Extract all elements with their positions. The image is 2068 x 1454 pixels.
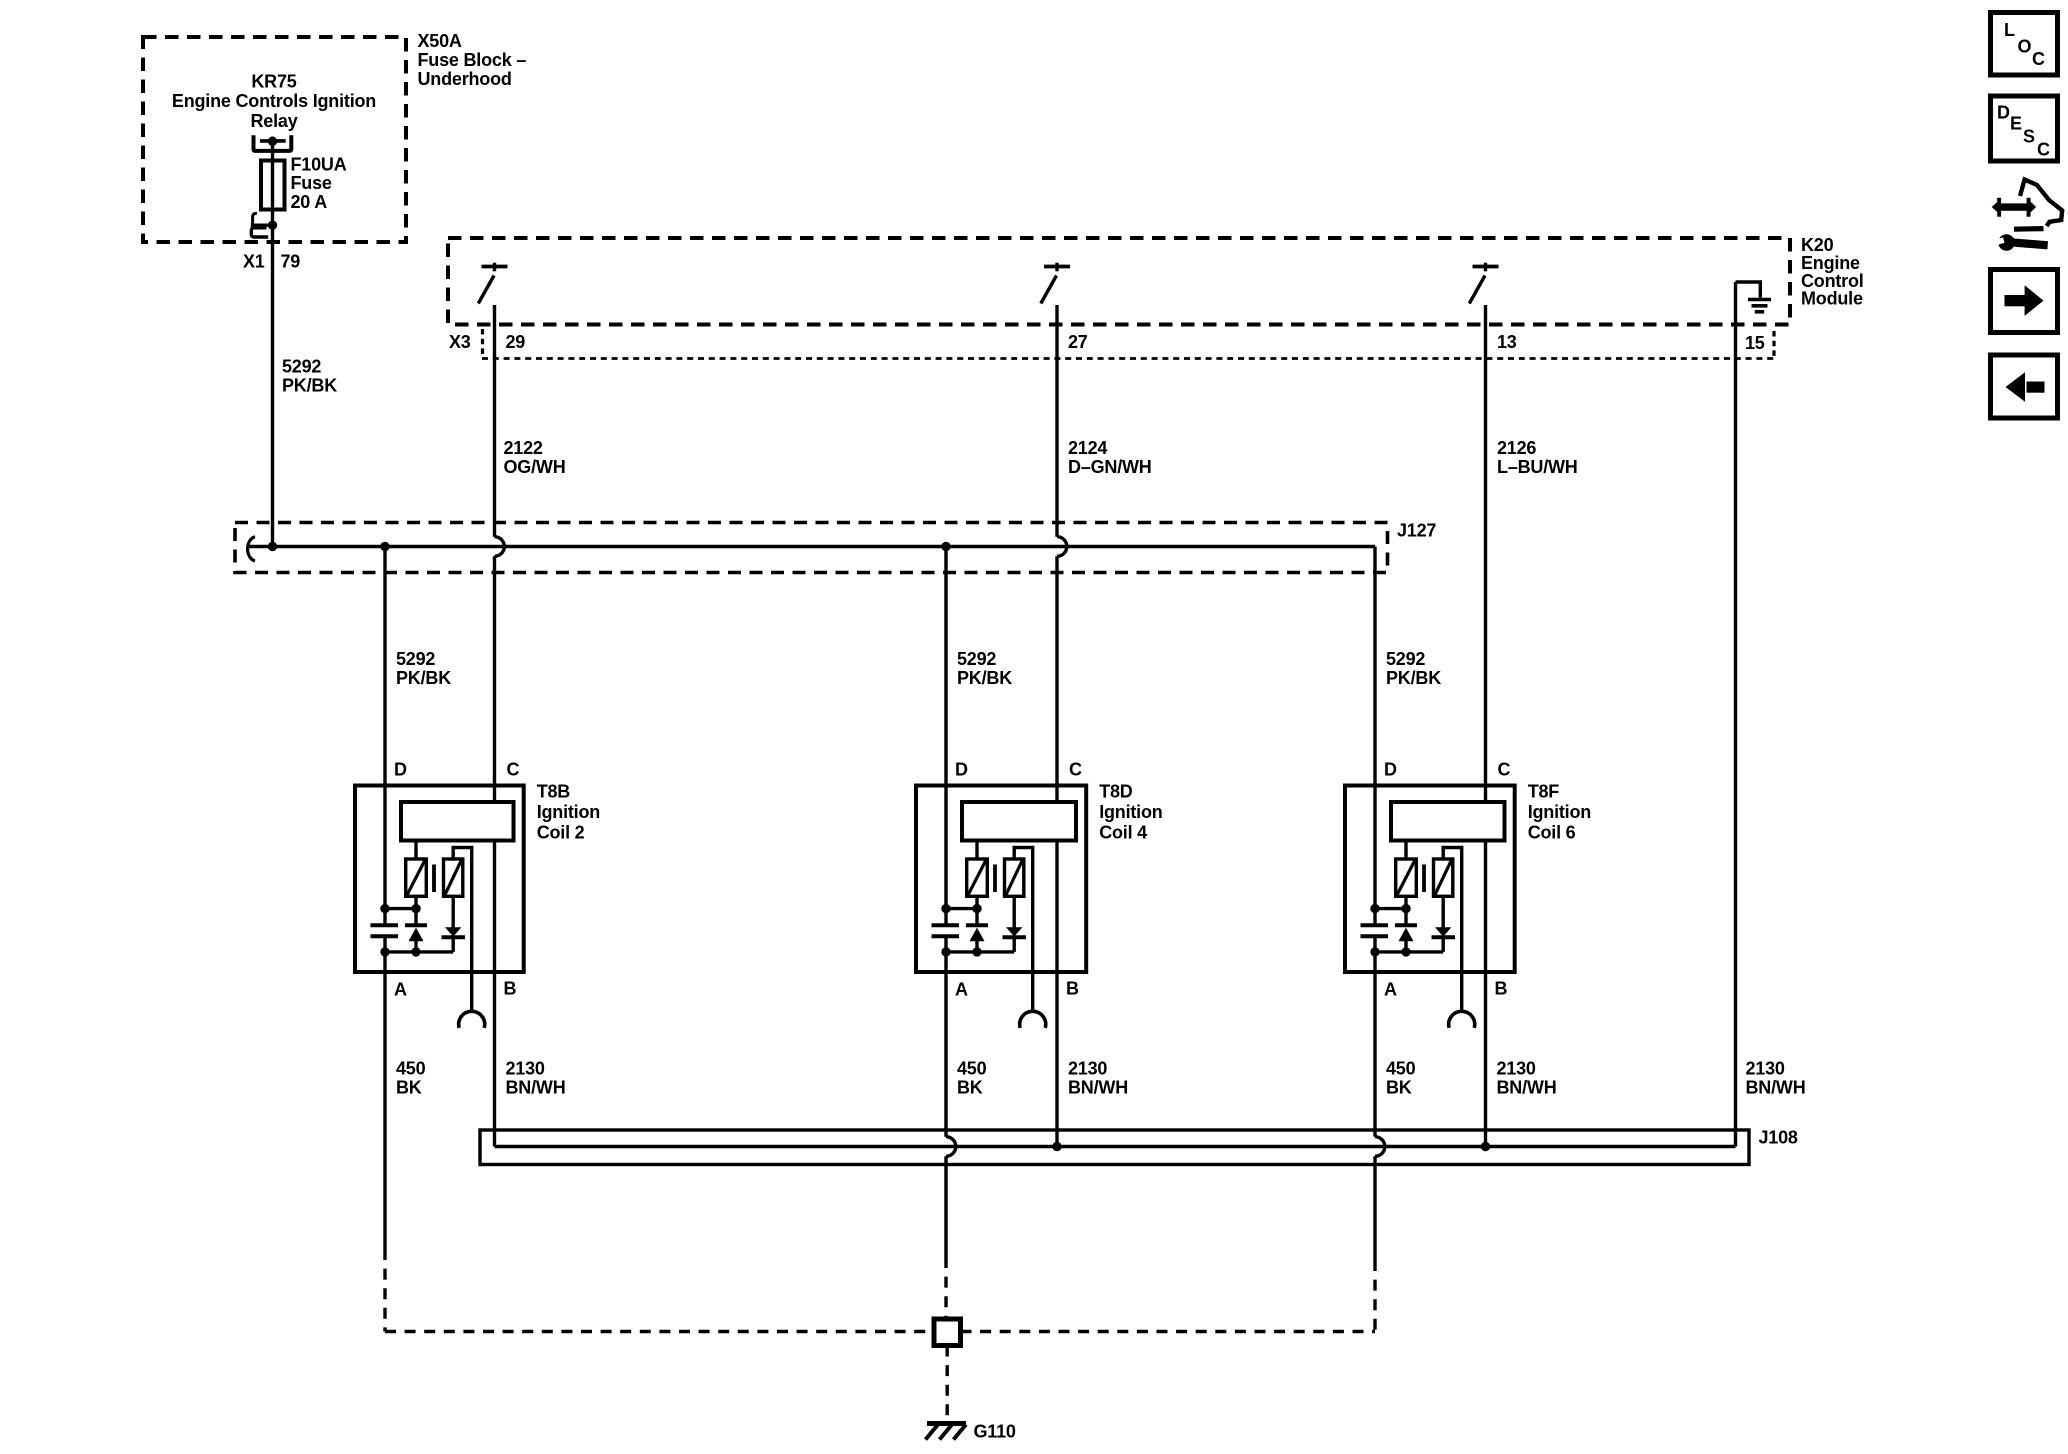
ECM driver output pin 13 — [1484, 263, 1487, 272]
junction J108 coil4 B — [1052, 1142, 1061, 1151]
coil 4 connector bar — [962, 802, 1076, 841]
svg-text:2130: 2130 — [1068, 1059, 1107, 1079]
svg-text:15: 15 — [1745, 333, 1765, 353]
svg-text:T8D: T8D — [1099, 782, 1133, 802]
svg-text:B: B — [504, 979, 517, 999]
wire 450 BK coil2 A — [383, 936, 386, 1249]
svg-text:D: D — [394, 760, 407, 780]
coil 4 igniter 2 — [1005, 859, 1024, 896]
svg-text:Coil 4: Coil 4 — [1099, 823, 1147, 843]
wire 5292 PK/BK to coil4 D — [944, 547, 947, 926]
coil 4 gate bar — [993, 865, 997, 893]
coil 2 connector wire D to igniter1 — [385, 907, 416, 910]
svg-text:J108: J108 — [1759, 1128, 1798, 1148]
coil 6 internal wire bar to igniter1 — [1404, 841, 1407, 860]
svg-text:79: 79 — [281, 252, 301, 272]
icon forward arrow — [2005, 295, 2027, 306]
svg-text:D–GN/WH: D–GN/WH — [1068, 457, 1152, 477]
svg-text:BK: BK — [957, 1078, 983, 1098]
coil 6 diode 1 — [1395, 923, 1417, 927]
relay KR75 contact — [254, 135, 292, 151]
coil 6 connector bar — [1391, 802, 1505, 841]
svg-text:5292: 5292 — [957, 649, 996, 669]
junction J127 fuse feed — [268, 542, 277, 551]
coil 6 wire igniter2 to diode 2 — [1441, 896, 1444, 927]
svg-text:13: 13 — [1497, 332, 1517, 352]
junction J127 coil4 — [941, 542, 950, 551]
coil 2 wire D/A through box — [384, 925, 386, 936]
svg-text:Relay: Relay — [250, 111, 297, 131]
wire 2122 OG/WH pin29 to coil2 C — [493, 305, 496, 537]
svg-text:D: D — [955, 760, 968, 780]
splice J127 bus — [248, 545, 1375, 548]
svg-text:Module: Module — [1801, 289, 1863, 309]
svg-text:PK/BK: PK/BK — [957, 668, 1012, 688]
svg-text:F10UA: F10UA — [291, 154, 347, 174]
ground G110 symbol — [927, 1421, 966, 1426]
splice J127 dashed box — [235, 523, 1388, 573]
ECM internal ground pin 15 — [1736, 282, 1761, 298]
svg-text:A: A — [955, 980, 968, 1000]
svg-text:BN/WH: BN/WH — [506, 1078, 566, 1098]
wire 2130 BN/WH coil4 B — [1055, 841, 1058, 1147]
coil 4 spark plug output — [1014, 848, 1032, 1013]
coil 4 capacitor — [932, 923, 960, 927]
coil 2 wire igniter2 to diode 2 — [452, 896, 455, 927]
svg-text:BK: BK — [396, 1078, 422, 1098]
wire ground dashed horizontal right — [961, 1330, 1376, 1333]
svg-text:Ignition: Ignition — [1528, 802, 1591, 822]
coil 2 bottom jumper — [385, 950, 453, 953]
svg-text:2130: 2130 — [1746, 1059, 1785, 1079]
wire 5292 fuse feed — [271, 141, 274, 547]
coil 2 diode 1 — [405, 923, 427, 927]
svg-text:X3: X3 — [449, 332, 471, 352]
wire 5292 PK/BK to coil6 D — [1373, 547, 1376, 926]
svg-text:D: D — [1384, 760, 1397, 780]
coil 6 gate bar — [1422, 865, 1426, 893]
svg-text:E: E — [2010, 113, 2022, 133]
junction J108 coil6 B — [1481, 1142, 1490, 1151]
ground splice node square — [934, 1319, 961, 1346]
wire 450 BK coil4 A — [944, 936, 947, 1136]
svg-text:S: S — [2023, 127, 2035, 147]
coil 2 igniter 1 — [406, 859, 427, 896]
svg-text:B: B — [1066, 979, 1079, 999]
wire 2124 D-GN/WH pin27 to coil4 C — [1055, 305, 1058, 537]
svg-text:450: 450 — [396, 1059, 426, 1079]
ignition coil 2 T8B box — [355, 786, 524, 973]
svg-text:Coil 2: Coil 2 — [537, 823, 585, 843]
coil 4 wire D/A through box — [945, 925, 947, 936]
coil 4 diode 1 — [966, 923, 988, 927]
svg-text:2130: 2130 — [506, 1059, 545, 1079]
wire ground dashed horizontal left — [385, 1330, 934, 1333]
svg-text:C: C — [2032, 49, 2045, 69]
wire 450 BK coil6 A — [1373, 936, 1376, 1136]
svg-text:KR75: KR75 — [251, 72, 296, 92]
wire 2130 BN/WH coil6 B — [1484, 841, 1487, 1147]
svg-text:D: D — [1997, 102, 2010, 122]
coil 2 internal wire bar to igniter1 — [414, 841, 417, 860]
connector strip bracket left — [481, 329, 484, 357]
svg-text:29: 29 — [506, 332, 526, 352]
svg-text:G110: G110 — [974, 1422, 1016, 1442]
coil 4 wire igniter1 to diode1 — [975, 896, 978, 924]
ignition coil 6 T8F box — [1345, 786, 1515, 973]
fuse F10UA — [261, 161, 285, 210]
ignition coil 4 T8D box — [916, 786, 1086, 973]
svg-text:2126: 2126 — [1497, 438, 1536, 458]
svg-text:BK: BK — [1386, 1078, 1412, 1098]
svg-text:C: C — [2037, 140, 2050, 160]
junction J127 coil2 — [380, 542, 389, 551]
coil 4 wire igniter2 to diode 2 — [1013, 896, 1016, 927]
svg-text:BN/WH: BN/WH — [1746, 1078, 1806, 1098]
ECM driver output pin 29 — [493, 263, 496, 272]
ECM driver output pin 27 — [1055, 263, 1058, 272]
coil 6 wire igniter1 to diode1 — [1404, 896, 1407, 924]
wire dashed splice to G110 — [946, 1346, 949, 1420]
coil 2 gate bar — [432, 865, 436, 893]
coil 6 capacitor — [1361, 923, 1389, 927]
splice J127 left hook — [248, 537, 255, 561]
svg-text:PK/BK: PK/BK — [396, 668, 451, 688]
svg-text:Ignition: Ignition — [1099, 802, 1162, 822]
wire 450 BK coil2 dashed to splice — [383, 1249, 386, 1332]
svg-text:BN/WH: BN/WH — [1497, 1078, 1557, 1098]
icon back arrow box — [1991, 355, 2058, 418]
icon LOC box — [1991, 13, 2058, 76]
wire 2130 BN/WH coil2 B — [493, 841, 496, 1147]
connector X1 terminal 79 — [253, 213, 257, 224]
coil 6 diode 2 — [1435, 927, 1451, 936]
svg-text:B: B — [1495, 979, 1508, 999]
splice J108 bus — [495, 1145, 1736, 1148]
svg-text:20 A: 20 A — [291, 192, 328, 212]
wire 450 BK coil4 dashed to splice — [944, 1257, 947, 1319]
svg-text:Fuse: Fuse — [291, 173, 332, 193]
coil 6 spark plug output — [1443, 848, 1462, 1013]
svg-text:5292: 5292 — [396, 649, 435, 669]
coil 2 capacitor — [371, 923, 399, 927]
svg-text:BN/WH: BN/WH — [1068, 1078, 1128, 1098]
connector strip bracket right — [1772, 331, 1775, 357]
icon back arrow — [2027, 382, 2045, 393]
ECM connector strip X3 line — [482, 357, 1774, 360]
coil 6 wire D/A through box — [1374, 925, 1376, 936]
coil 2 spark plug output — [453, 848, 472, 1013]
icon adjust (arrows and wrench) — [1992, 201, 1998, 213]
svg-text:2124: 2124 — [1068, 438, 1107, 458]
svg-text:Fuse Block –: Fuse Block – — [418, 50, 527, 70]
svg-text:A: A — [1384, 980, 1397, 1000]
svg-text:X50A: X50A — [418, 31, 462, 51]
svg-text:PK/BK: PK/BK — [1386, 668, 1441, 688]
svg-text:C: C — [1498, 760, 1511, 780]
svg-text:450: 450 — [957, 1059, 987, 1079]
svg-text:5292: 5292 — [282, 357, 321, 377]
coil 6 igniter 1 — [1396, 859, 1417, 896]
svg-text:C: C — [507, 760, 520, 780]
coil 4 internal wire bar to igniter1 — [975, 841, 978, 860]
icon forward arrow box — [1991, 270, 2058, 333]
svg-text:L: L — [2004, 20, 2015, 40]
coil 4 diode 2 — [1006, 927, 1022, 936]
coil 2 diode 2 — [445, 927, 461, 936]
coil 6 bottom jumper — [1375, 950, 1443, 953]
coil 2 wire igniter1 to diode1 — [414, 896, 417, 924]
coil 6 connector wire D to igniter1 — [1375, 907, 1406, 910]
svg-text:Engine Controls Ignition: Engine Controls Ignition — [172, 91, 376, 111]
coil 4 bottom jumper — [946, 950, 1014, 953]
coil 2 connector bar — [401, 802, 514, 841]
svg-text:A: A — [394, 980, 407, 1000]
coil 2 igniter 2 — [444, 859, 463, 896]
wire 2130 BN/WH pin15 to J108 — [1734, 282, 1737, 1147]
svg-text:J127: J127 — [1397, 521, 1436, 541]
svg-text:C: C — [1069, 760, 1082, 780]
fuse block X50A dashed box — [143, 37, 406, 242]
wire 2126 L-BU/WH pin13 to coil6 C — [1484, 305, 1487, 802]
wire 450 BK coil6 dashed to splice — [1373, 1260, 1376, 1332]
svg-text:5292: 5292 — [1386, 649, 1425, 669]
svg-text:Underhood: Underhood — [418, 69, 512, 89]
coil 4 igniter 1 — [967, 859, 988, 896]
svg-text:450: 450 — [1386, 1059, 1416, 1079]
svg-text:27: 27 — [1068, 332, 1088, 352]
svg-text:Coil 6: Coil 6 — [1528, 823, 1576, 843]
svg-text:O: O — [2018, 37, 2032, 57]
svg-text:Ignition: Ignition — [537, 802, 600, 822]
splice J108 box — [480, 1130, 1749, 1165]
svg-text:L–BU/WH: L–BU/WH — [1497, 457, 1578, 477]
coil 6 igniter 2 — [1434, 859, 1453, 896]
svg-text:T8B: T8B — [537, 782, 571, 802]
svg-text:2130: 2130 — [1497, 1059, 1536, 1079]
icon DESC box — [1991, 96, 2058, 161]
coil 4 connector wire D to igniter1 — [946, 907, 977, 910]
ECM K20 dashed box — [448, 238, 1790, 325]
svg-text:X1: X1 — [243, 252, 265, 272]
svg-text:T8F: T8F — [1528, 782, 1560, 802]
svg-text:OG/WH: OG/WH — [504, 457, 566, 477]
wire 5292 PK/BK to coil2 D — [383, 547, 386, 926]
svg-text:PK/BK: PK/BK — [282, 376, 337, 396]
svg-text:2122: 2122 — [504, 438, 543, 458]
